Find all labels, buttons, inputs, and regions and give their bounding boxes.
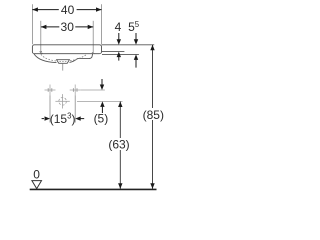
svg-text:(5): (5) xyxy=(94,112,109,126)
arrowhead 63 bottom xyxy=(118,183,122,189)
svg-text:30: 30 xyxy=(61,20,75,34)
extension line below left fixing hole xyxy=(49,96,51,123)
dimension line 40 xyxy=(32,9,101,11)
extension line left of 40 dim xyxy=(31,4,33,44)
svg-text:(85): (85) xyxy=(143,108,164,122)
tap hole leader line xyxy=(77,100,123,102)
dim 15.3 left arrow xyxy=(45,116,51,120)
tap hole crosshair xyxy=(55,94,69,108)
dim 5.5 lower arrow xyxy=(134,54,138,60)
label 63 halo xyxy=(108,138,131,150)
dimension line 30 xyxy=(41,26,93,28)
drain trapezoid xyxy=(57,60,70,64)
extension line right of 40 dim xyxy=(101,4,103,44)
extension line below right fixing hole xyxy=(74,96,76,123)
label 85 halo xyxy=(142,108,165,120)
svg-text:40: 40 xyxy=(61,3,75,17)
extension line left of 30 dim xyxy=(40,21,42,53)
dimension line 85 xyxy=(152,45,154,189)
dim 4 lower arrow xyxy=(117,52,121,58)
reference line rim underside extended xyxy=(102,51,124,53)
drain hidden rect dashed xyxy=(60,60,67,62)
arrowhead 30 left xyxy=(41,25,47,29)
svg-text:(63): (63) xyxy=(108,138,129,152)
arrowhead 30 right xyxy=(88,25,94,29)
arrowhead 40 right xyxy=(96,7,102,11)
svg-text:0: 0 xyxy=(33,168,40,182)
floor line xyxy=(30,188,157,190)
arrowhead 40 left xyxy=(32,7,38,11)
fixing hole crosshair left xyxy=(45,85,56,96)
centre line below drain xyxy=(62,64,64,71)
hidden hole mark left xyxy=(40,51,43,54)
washbasin rim front view xyxy=(32,45,101,54)
basin outer silhouette right xyxy=(70,54,93,63)
arrowhead 85 bottom xyxy=(150,183,154,189)
reference line apron bottom extended xyxy=(102,53,139,55)
leader line fixing holes to 5 dim xyxy=(81,89,105,91)
datum level triangle xyxy=(32,181,42,189)
arrowhead 85 top xyxy=(150,45,154,51)
hidden hole mark right xyxy=(92,53,95,54)
fixing hole crosshair right xyxy=(70,85,81,96)
svg-text:(153): (153) xyxy=(50,112,76,126)
arrowhead 63 top xyxy=(118,102,122,108)
inner bowl hidden line dotted xyxy=(41,54,86,61)
dim 15.3 right arrow xyxy=(75,116,81,120)
basin outer silhouette left xyxy=(34,54,57,63)
reference line rim top extended xyxy=(102,44,155,46)
dimension line 63 xyxy=(119,102,121,189)
dim 5 lower arrow xyxy=(100,101,104,107)
dim 5 upper arrow xyxy=(101,79,103,85)
extension line right of 30 dim xyxy=(92,21,94,53)
dim 5.5 upper arrow xyxy=(135,33,137,40)
svg-text:4: 4 xyxy=(115,20,122,34)
dim 4 upper arrow xyxy=(118,33,120,40)
